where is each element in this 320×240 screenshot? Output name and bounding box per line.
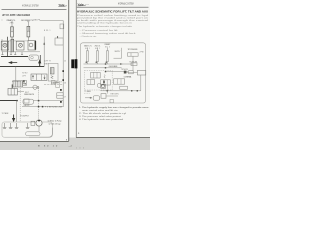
svg-text:12 Tank 13 Cap: 12 Tank 13 Cap (49, 124, 61, 126)
return thick wire (0, 100, 17, 102)
tilt wire down (132, 56, 134, 70)
suction vertical wires (16, 101, 18, 122)
r relief circle (97, 83, 101, 87)
right page bottom edge (76, 137, 150, 139)
svg-text:10 Motor 11 Pump: 10 Motor 11 Pump (48, 120, 62, 123)
svg-text:TILT LOCK: TILT LOCK (121, 69, 129, 71)
cyl2 bottom fitting (96, 62, 97, 64)
suction screen rounded (26, 132, 40, 136)
bus wire 3 (106, 71, 129, 73)
breather tick (57, 36, 59, 38)
lift cylinder 1 rod (11, 22, 13, 27)
tilt spool arrow (23, 83, 26, 85)
r suction arrow (85, 97, 92, 98)
r cylinder 2 rod (96, 48, 98, 52)
r tank symbol (93, 96, 99, 100)
svg-text:73 1: 73 1 (10, 23, 14, 25)
wire filter right (17, 91, 24, 93)
svg-text:1. The hydraulic supply line: 1. The hydraulic supply line was changed… (79, 106, 149, 109)
strainer 2 (9, 123, 13, 129)
main supply wire (0, 66, 44, 68)
lift cylinder 1 (11, 27, 14, 37)
hose arrow on branch (43, 42, 45, 45)
left page sheet (0, 0, 69, 142)
right vertical wire (140, 75, 142, 91)
svg-text:3. The pressure relief valve: 3. The pressure relief valve protect (79, 115, 122, 118)
svg-text:– Pressure control for lift: – Pressure control for lift (80, 29, 119, 32)
svg-text:B RL 1: B RL 1 (44, 30, 51, 32)
svg-text:B 30 10: B 30 10 (38, 145, 59, 147)
r cylinder 3 (106, 51, 108, 62)
filter tick (11, 84, 13, 88)
svg-text:COUNTERBAL: COUNTERBAL (124, 76, 132, 79)
wire row 2 (22, 106, 63, 108)
relief small box (24, 99, 29, 103)
strainer 4 (26, 123, 30, 129)
pump dot (38, 120, 40, 122)
return filter box (8, 88, 17, 95)
header rule (2, 8, 67, 10)
hose arrow down (39, 61, 41, 67)
svg-text:17: 17 (64, 97, 66, 99)
r valve body 1 (91, 72, 101, 78)
r cylinder 1 rod (86, 48, 88, 52)
r component mid (101, 94, 106, 99)
flow regulator rounded box (29, 55, 38, 60)
wire down to control valve (15, 67, 17, 81)
bypass rounded box (23, 99, 33, 104)
lift cylinder 2 rod (27, 22, 29, 27)
link line boxes top (1, 40, 28, 42)
bus wire 1 (84, 63, 134, 65)
supply manifold thick wire (1, 56, 28, 58)
svg-text:– Manual lowering valve and t: – Manual lowering valve and tilt lock (80, 32, 136, 35)
breather box (55, 38, 63, 45)
right page sheet (76, 0, 150, 138)
r vertical drop (106, 85, 108, 94)
svg-text:RELIEF 2000 PSI: RELIEF 2000 PSI (24, 94, 35, 96)
svg-text:CHECK VALVE: CHECK VALVE (109, 65, 119, 68)
cyl1 bottom fitting (86, 62, 87, 64)
small tank left page edge (110, 99, 113, 102)
svg-text:2 PSI: 2 PSI (140, 51, 145, 53)
svg-text:P S SUPPLY: P S SUPPLY (20, 116, 30, 118)
r valve body 4 right (114, 79, 125, 84)
relief valve enclosure (48, 63, 58, 81)
svg-text:PRIMARY CYL: PRIMARY CYL (7, 19, 16, 22)
svg-text:– Checks in circ: – Checks in circ (80, 36, 97, 38)
svg-text:4. The hydraulic tank was pro: 4. The hydraulic tank was protected (79, 118, 124, 121)
right arrow on bus (120, 63, 123, 65)
wire right branch (43, 37, 45, 67)
svg-text:FLOW CTRL: FLOW CTRL (130, 62, 138, 64)
suction arrow down (13, 115, 15, 122)
r pump box (101, 84, 106, 88)
svg-text:HYDRAULIC SCHEMATIC FOR LIFT,: HYDRAULIC SCHEMATIC FOR LIFT, TILT AND A… (77, 10, 148, 13)
dark component right (124, 71, 127, 74)
tee fitting 4 (21, 52, 23, 55)
svg-text:2. The tilt check valve prote: 2. The tilt check valve protects cyl (79, 112, 127, 115)
strainer 3 (15, 123, 19, 129)
grey desk background under pages (0, 142, 150, 151)
check valve circle 1 (3, 43, 7, 47)
svg-text:The hydraulic schematic change: The hydraulic schematic changes include (77, 25, 133, 28)
svg-text:16: 16 (64, 83, 66, 85)
svg-text:1 IN 1 PS: 1 IN 1 PS (33, 20, 41, 22)
svg-text:LIFT CYL SUPPLY LINE CHANGED: LIFT CYL SUPPLY LINE CHANGED (2, 14, 30, 17)
left page right edge (68, 0, 70, 141)
right page left edge (75, 0, 77, 138)
r pump circle (101, 85, 104, 88)
flow arrow left (9, 62, 17, 64)
hanger box top right (60, 24, 64, 29)
gauge circle (33, 85, 37, 89)
wire cyl tops (1, 39, 3, 52)
relief cartridge (50, 68, 54, 75)
schematic frame (80, 43, 145, 103)
dashes near tank label (84, 92, 90, 94)
wire L to tilt (114, 48, 122, 58)
wire gauge (23, 86, 38, 88)
aux port box (56, 83, 60, 88)
svg-text:TO TANK: TO TANK (84, 90, 92, 93)
svg-text:TILT CYLINDERS: TILT CYLINDERS (128, 49, 139, 51)
svg-text:LIFT H: LIFT H (45, 61, 52, 63)
junction block a (62, 70, 64, 72)
tee fitting 1 (1, 52, 3, 55)
wire connecting right boxes (126, 71, 137, 73)
small box right top (131, 63, 137, 66)
r cylinder 1 (86, 51, 88, 62)
binder spine mark (71, 59, 74, 68)
header rule right (77, 6, 149, 8)
relief spring (51, 76, 53, 79)
r wire bottom bus (100, 90, 141, 92)
mid small box right (129, 71, 134, 74)
r cylinder 3 rod (106, 48, 108, 52)
velocity fuse box 1 (1, 41, 9, 50)
lowering valve circle (29, 43, 33, 47)
tank bottom-right dark edge (29, 128, 52, 138)
check valve circle 2 (18, 43, 22, 47)
wire row 1 (33, 100, 63, 102)
pump drive box (31, 121, 35, 125)
cooler box (57, 93, 63, 98)
r cylinder 2 (96, 51, 98, 62)
r valve body 3 (101, 80, 111, 85)
rod cap 1 (11, 21, 13, 23)
wire manifold row (2, 51, 40, 53)
lowering valve box (28, 41, 36, 51)
svg-text:PORT: PORT (56, 81, 63, 83)
svg-text:x: x (2, 20, 3, 22)
junction dot (16, 100, 17, 101)
hydraulic tank (2, 122, 52, 137)
schematic top boundary wire (40, 21, 63, 107)
svg-text:TO TANK: TO TANK (2, 112, 10, 115)
svg-text:RETURN: RETURN (111, 94, 120, 96)
svg-text:LIFT: LIFT (22, 75, 26, 77)
junction dark on valve (103, 81, 105, 84)
wire cyl1 down (7, 37, 9, 57)
small box below valve4 (120, 86, 128, 89)
svg-text:P S RETURN LINE: P S RETURN LINE (45, 107, 63, 109)
velocity fuse box 2 (16, 41, 24, 50)
junction squares (38, 100, 40, 102)
wire regulator down (39, 55, 41, 62)
wire cooler row (44, 84, 63, 86)
svg-text:and handling of the hydraulic: and handling of the hydraulic forces in (77, 22, 132, 25)
tilt spool hatched (13, 81, 23, 87)
cyl1 to fuse connector (11, 37, 13, 39)
cyl2 to fuse connector (27, 37, 29, 41)
svg-text:SUPPLY: SUPPLY (115, 51, 122, 53)
svg-text:LIFT CONTROL: LIFT CONTROL (12, 81, 21, 83)
svg-text:HYDRAULIC SYSTEM: HYDRAULIC SYSTEM (118, 1, 134, 5)
strainer 1 (3, 123, 7, 129)
junction ring (37, 87, 39, 89)
svg-text:1 0 0: 1 0 0 (76, 147, 85, 149)
tee fitting 3 (14, 52, 16, 55)
r spring small (104, 75, 105, 79)
main control valve body (31, 74, 47, 80)
bus wire 2 (84, 67, 122, 69)
priority valve box (23, 81, 27, 86)
svg-text:TO TILT: TO TILT (22, 73, 28, 75)
dashed drain line (38, 88, 40, 120)
component right box (137, 70, 145, 75)
tee fitting 2 (10, 52, 12, 55)
main pump (36, 120, 42, 126)
svg-text:main control valve and lift ci: main control valve and lift circ (82, 109, 119, 112)
lift cylinder 2 (27, 26, 30, 37)
svg-text:15: 15 (64, 61, 66, 63)
small component top (51, 80, 55, 84)
junction block b (62, 79, 64, 81)
tilt cylinder body (128, 53, 139, 56)
svg-text:HYDRAULIC SYSTEM: HYDRAULIC SYSTEM (22, 4, 39, 7)
junction dots bus (105, 63, 106, 64)
dashed valve enclosure (84, 70, 112, 90)
rod cap 2 (27, 21, 29, 23)
junction dots bottom (107, 90, 108, 91)
solenoid dark bar (35, 41, 37, 50)
flow regulator hatched (11, 39, 14, 52)
cylinder drop wires (86, 62, 88, 64)
r valve body 2 (87, 80, 95, 85)
cyl3 bottom fitting (106, 62, 107, 64)
left page bottom edge (0, 141, 69, 143)
svg-text:SECONDARY CYL: SECONDARY CYL (21, 19, 34, 22)
